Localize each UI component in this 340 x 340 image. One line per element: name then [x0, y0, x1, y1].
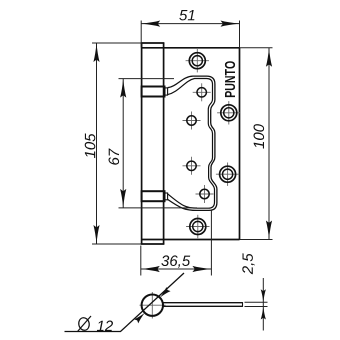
lower collar: [142, 191, 165, 201]
hole H3 single: [183, 112, 201, 130]
hinge barrel right edge: [163, 43, 165, 244]
barrel bottom edge: [141, 243, 165, 245]
dia 12 leader arrow upper: [158, 287, 171, 300]
dia 12 leader line: [65, 273, 185, 332]
dim 36,5 extension line right: [210, 211, 212, 276]
dim 2,5 line: [262, 278, 264, 331]
plate right edge: [239, 48, 241, 240]
dia 12 leader arrow lower: [134, 311, 147, 324]
dim 51 extension line left: [140, 21, 142, 48]
dim 2,5 arrow top: [261, 289, 266, 302]
dim 36,5 extension line left: [140, 246, 142, 276]
inner leaf contour inner line: [168, 79, 215, 209]
dim 36,5 arrow right: [192, 266, 211, 272]
dim 51 arrow left: [141, 21, 160, 27]
dim 67 arrow bottom: [120, 189, 126, 208]
dim text 100: [254, 124, 265, 149]
dim 105 arrow bottom: [93, 225, 99, 244]
upper collar tab: [164, 88, 168, 95]
dim 100 extension line top: [240, 47, 273, 49]
side view barrel circle: [142, 295, 163, 316]
dim 105 arrow top: [93, 43, 99, 62]
hole H7 right countersunk: [216, 163, 239, 186]
dim 51 extension line right: [239, 21, 241, 48]
side view plate end cap: [242, 302, 244, 307]
side view circle centerlines: [140, 292, 166, 319]
side view plate bottom line: [162, 305, 242, 307]
dim 2,5 extension line bottom: [245, 306, 268, 308]
hole H5 single: [183, 157, 201, 175]
dim 36,5 line: [141, 268, 212, 270]
dim 51 arrow right: [221, 21, 240, 27]
dim 105 line: [96, 43, 98, 244]
dim 36,5 arrow left: [141, 266, 160, 272]
dim text 105: [85, 133, 96, 158]
dim text 36,5: [161, 255, 190, 267]
dim 100 extension line bottom: [240, 239, 273, 241]
dim 67 line: [122, 79, 124, 208]
plate bottom edge: [142, 239, 240, 241]
hole H1 top countersunk: [186, 49, 209, 72]
side view plate top line: [163, 302, 243, 304]
dim text 12: [97, 321, 113, 332]
plate top edge: [142, 47, 240, 49]
dim 67 extension line top: [119, 78, 175, 80]
brand text PUNTO: [225, 61, 235, 97]
dim 100 arrow bottom: [266, 221, 272, 240]
dim 2,5 extension line top: [245, 301, 268, 303]
lower collar tab: [164, 193, 168, 200]
dim 67 arrow top: [120, 79, 126, 98]
dim 100 arrow top: [266, 48, 272, 67]
hole H6 single: [196, 185, 214, 203]
upper collar: [142, 87, 165, 97]
dim 105 extension line bottom: [92, 243, 142, 245]
hole H8 bottom countersunk: [186, 215, 209, 238]
inner leaf contour outer line: [168, 76, 217, 210]
hole H4 right countersunk: [217, 101, 240, 124]
dia symbol: [78, 316, 92, 332]
dim 67 extension line bottom: [119, 207, 198, 209]
barrel top edge: [141, 42, 165, 44]
dim 51 line: [141, 23, 239, 25]
dim text 2,5: [242, 253, 254, 274]
dim text 51: [179, 10, 194, 20]
dim 100 line: [268, 48, 270, 240]
dim 105 extension line top: [92, 42, 142, 44]
dim text 67: [109, 148, 120, 164]
hinge barrel left edge: [141, 43, 143, 244]
hole H2 single: [193, 83, 211, 101]
dim 2,5 arrow bottom: [261, 307, 266, 320]
